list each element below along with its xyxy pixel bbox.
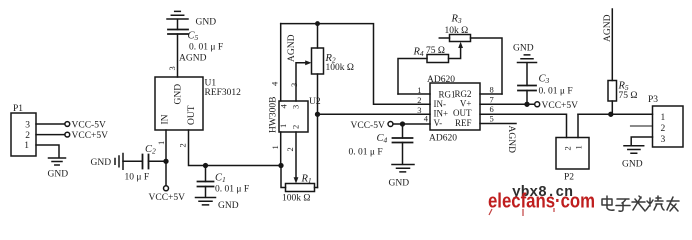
svg-text:1: 1: [24, 141, 29, 151]
svg-text:IN: IN: [161, 114, 171, 124]
svg-text:P3: P3: [648, 95, 658, 105]
svg-text:100k Ω: 100k Ω: [282, 194, 310, 204]
junction C1 on output rail: [204, 164, 208, 168]
junction R5 on output line: [609, 112, 613, 116]
svg-text:R1: R1: [301, 174, 312, 186]
wire U1 pin1 IN to VCC+5V terminal: [165, 130, 167, 186]
wire R3 left stub: [439, 37, 449, 39]
wire P3 pin2 stub: [631, 125, 653, 127]
wire C4 to ground: [402, 143, 404, 165]
svg-text:GND: GND: [218, 201, 239, 211]
svg-text:0. 01 μ F: 0. 01 μ F: [539, 87, 573, 97]
resistor R4: [427, 55, 449, 63]
arrow wiper of R2: [305, 60, 311, 65]
wire R5 bottom lead: [611, 101, 613, 114]
capacitor C1: [198, 182, 214, 187]
svg-text:V-: V-: [434, 118, 443, 128]
svg-text:R4: R4: [413, 47, 424, 59]
svg-text:GND: GND: [174, 84, 184, 105]
op-amp U3 AD620: [430, 83, 480, 130]
node VCC-5V terminal circle: [65, 122, 70, 127]
junction C4 on pin4 wire: [401, 122, 405, 126]
svg-text:RG1: RG1: [439, 89, 456, 99]
wire R1 left lead to rail: [281, 166, 286, 188]
wire C4 top lead: [402, 124, 404, 138]
svg-text:3: 3: [661, 135, 666, 145]
svg-text:GND: GND: [389, 179, 410, 189]
svg-text:2: 2: [285, 147, 295, 151]
svg-text:C1: C1: [215, 173, 226, 185]
wire P1 pin3 to VCC-5V terminal: [36, 123, 65, 125]
wire AD620 pin7 to VCC+5V: [480, 103, 535, 105]
svg-text:C3: C3: [539, 74, 550, 86]
node VCC-5V terminal circle: [388, 122, 393, 127]
svg-text:AD620: AD620: [427, 75, 455, 85]
wire P2 pin1 to output line: [577, 114, 579, 137]
svg-text:2: 2: [291, 125, 301, 129]
watermark drip marks: [489, 208, 554, 216]
capacitor C2: [143, 155, 149, 169]
svg-text:C5: C5: [188, 31, 199, 43]
svg-text:GND: GND: [622, 160, 643, 170]
wire P3 pin3 to ground: [631, 137, 652, 146]
svg-text:1: 1: [661, 113, 666, 123]
svg-text:AGND: AGND: [603, 14, 613, 42]
wire P1 pin1 to ground: [36, 145, 59, 158]
wire C3 bottom lead: [526, 91, 528, 105]
wire VCC-5V to AD620 pin4: [393, 123, 430, 125]
svg-text:AGND: AGND: [506, 126, 516, 154]
svg-text:75 Ω: 75 Ω: [619, 91, 638, 101]
svg-text:VCC+5V: VCC+5V: [149, 193, 186, 203]
svg-text:IN-: IN-: [434, 99, 447, 109]
wire C2 ground lead: [123, 160, 142, 162]
wire R5 top to AGND: [611, 9, 613, 81]
svg-text:HW300B: HW300B: [269, 97, 279, 133]
wire C1 top lead: [205, 166, 207, 182]
wire C3 to ground: [526, 63, 528, 86]
ground symbol under C4: [392, 165, 414, 172]
wire IN+ node down to R1 right lead: [317, 114, 319, 187]
wire output line P2 to P3 pin1: [578, 113, 653, 115]
wire U1 pin3 to C5: [177, 34, 179, 77]
svg-text:1: 1: [278, 124, 288, 128]
potentiometer R2: [312, 48, 324, 74]
svg-text:GND: GND: [196, 18, 217, 28]
wire U1 pin2 OUT down and right (output rail): [189, 130, 282, 166]
svg-text:U1: U1: [205, 79, 217, 89]
junction R2 top on AGND rail: [316, 22, 319, 25]
potentiometer R3: [450, 35, 471, 42]
junction C2 / U1 IN: [164, 159, 168, 163]
svg-text:AGND: AGND: [179, 54, 207, 64]
regulator U1 REF3012: [155, 77, 203, 130]
wire R1 right lead: [315, 187, 318, 189]
svg-text:2: 2: [563, 146, 573, 150]
potentiometer R1: [286, 184, 315, 192]
svg-text:100k Ω: 100k Ω: [326, 63, 354, 73]
svg-text:R3: R3: [451, 14, 462, 26]
wire U2 pin2 to R1 wiper: [295, 132, 297, 179]
wire C1 to ground: [205, 187, 207, 198]
svg-text:1: 1: [156, 141, 166, 145]
svg-text:C2: C2: [145, 144, 156, 156]
wire U2 pin3 to R2 wiper: [296, 63, 305, 101]
arrow wiper of R1: [294, 177, 299, 183]
ground symbol at P3: [624, 146, 644, 153]
wire AGND rail to AD620 pin2: [281, 24, 430, 105]
wire AD620 pin1: [398, 93, 430, 95]
sensor U2 HW300B: [279, 101, 308, 132]
resistor R5: [608, 81, 617, 102]
svg-text:1: 1: [270, 145, 280, 149]
junction C3 on pin7 wire: [525, 102, 529, 106]
node VCC+5V terminal under U1: [164, 186, 169, 191]
svg-text:3: 3: [289, 83, 299, 87]
wire R4 right lead to R3 wiper: [449, 48, 461, 59]
svg-text:1: 1: [574, 145, 584, 149]
svg-text:VCC-5V: VCC-5V: [351, 121, 385, 131]
svg-text:75 Ω: 75 Ω: [426, 46, 445, 56]
wire R2 bottom to IN+ node: [317, 74, 319, 114]
svg-text:GND: GND: [513, 44, 534, 54]
ground symbol under C1: [196, 198, 216, 205]
svg-text:1: 1: [417, 85, 421, 95]
svg-text:V+: V+: [460, 99, 472, 109]
svg-text:8: 8: [490, 85, 494, 95]
svg-text:2: 2: [25, 131, 30, 141]
svg-text:VCC-5V: VCC-5V: [72, 121, 106, 131]
svg-text:U2: U2: [309, 97, 321, 107]
wire AD620 pin8 stub: [480, 93, 502, 95]
svg-text:2: 2: [178, 143, 188, 147]
node VCC+5V terminal circle right: [535, 102, 540, 107]
connector P3: [653, 106, 684, 147]
wire C5 to ground: [177, 19, 179, 29]
wire AD620 pin5 REF stub: [480, 123, 516, 125]
svg-text:OUT: OUT: [187, 105, 197, 125]
junction U2 pin1 / R1 left on rail: [279, 164, 283, 168]
svg-text:REF3012: REF3012: [205, 88, 242, 98]
svg-text:2: 2: [661, 124, 666, 134]
svg-text:3: 3: [167, 66, 177, 70]
svg-text:P1: P1: [13, 104, 23, 114]
svg-text:10 μ F: 10 μ F: [125, 173, 150, 183]
wire U2 pin4 to AGND rail: [280, 24, 282, 101]
wire P1 pin2 to VCC+5V terminal: [36, 134, 65, 136]
svg-text:OUT: OUT: [453, 108, 472, 118]
svg-text:0. 01 μ F: 0. 01 μ F: [349, 148, 383, 158]
svg-text:GND: GND: [48, 170, 69, 180]
capacitor C3: [518, 86, 536, 91]
svg-text:C4: C4: [377, 133, 388, 145]
wire R4 left lead to AD620 pin1: [398, 59, 427, 95]
connector P1: [11, 113, 36, 156]
svg-text:VCC+5V: VCC+5V: [542, 101, 579, 111]
wire R3 right lead to AD620 pin8: [471, 38, 503, 94]
svg-text:10k Ω: 10k Ω: [445, 26, 469, 36]
wire IN+ node to AD620 pin3: [318, 113, 431, 115]
ground symbol above C3: [518, 55, 537, 63]
watermark chinese characters: [602, 196, 679, 211]
wire R2 top to AGND rail: [317, 24, 319, 48]
svg-text:elecfans·com: elecfans·com: [488, 190, 595, 212]
svg-text:7: 7: [490, 94, 494, 104]
svg-text:AGND: AGND: [287, 34, 297, 62]
svg-text:IN+: IN+: [434, 109, 449, 119]
svg-text:0. 01 μ F: 0. 01 μ F: [215, 185, 249, 195]
wire U2 pin1 to output rail: [280, 132, 282, 166]
svg-text:GND: GND: [91, 158, 112, 168]
svg-text:3: 3: [25, 121, 30, 131]
svg-text:RG2: RG2: [454, 89, 471, 99]
svg-text:P2: P2: [564, 173, 574, 183]
junction IN+ node: [316, 112, 320, 116]
node VCC+5V terminal circle: [65, 132, 70, 137]
wire C2 to VCC+5V rail: [149, 160, 167, 162]
connector P2: [556, 138, 589, 170]
wire AD620 pin6 OUT to P2 pin2: [480, 114, 567, 137]
ground symbol above C5: [167, 11, 188, 19]
ground symbol rotated at C2: [115, 154, 123, 170]
ground symbol at P1 pin1: [49, 158, 66, 165]
svg-text:2: 2: [417, 95, 421, 105]
svg-text:3: 3: [291, 105, 301, 109]
capacitor C5: [168, 30, 188, 35]
svg-text:0. 01 μ F: 0. 01 μ F: [189, 43, 223, 53]
svg-text:AD620: AD620: [429, 134, 457, 144]
svg-text:VCC+5V: VCC+5V: [72, 131, 109, 141]
svg-text:3: 3: [417, 105, 421, 115]
capacitor C4: [393, 138, 413, 143]
arrow wiper of R3: [458, 42, 463, 48]
svg-text:REF: REF: [455, 118, 472, 128]
